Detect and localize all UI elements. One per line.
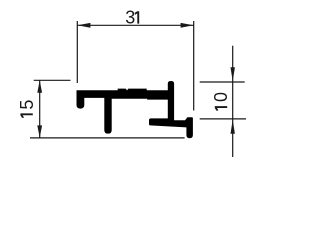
dim 10: dimension line xyxy=(232,46,234,157)
dim 31: left arrowhead xyxy=(77,23,90,28)
profile cross-section (black solid) xyxy=(77,81,193,138)
svg-text:3: 3 xyxy=(125,8,135,28)
dim 15: dimension line xyxy=(39,80,41,138)
dim 10: bottom arrowhead (points up) xyxy=(231,120,235,134)
dim 31: dimension line xyxy=(77,24,193,26)
dim 15: value text (rotated) xyxy=(17,100,37,118)
dim 31: right extension line xyxy=(193,21,195,111)
dim 10: value text (rotated) xyxy=(211,92,231,111)
dim 10: top arrowhead (points down) xyxy=(231,67,235,81)
svg-text:5: 5 xyxy=(17,100,37,110)
dim 10: bottom extension line xyxy=(200,118,246,120)
dim 15: top extension line xyxy=(34,79,71,81)
dim 10: top extension line xyxy=(200,81,245,83)
dim 15: down arrowhead xyxy=(37,125,42,137)
dim 15: up arrowhead xyxy=(37,81,42,93)
dim 15: bottom extension line xyxy=(30,137,185,139)
dim 31: left extension line xyxy=(76,21,78,83)
svg-text:0: 0 xyxy=(211,92,231,102)
dim 31: right arrowhead xyxy=(181,23,194,28)
dim 31: digit 1 (drawn) xyxy=(135,11,140,23)
